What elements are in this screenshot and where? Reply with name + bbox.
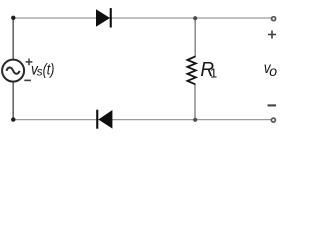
AC voltage source circle [2, 60, 24, 82]
diode D2 triangle [98, 110, 112, 129]
svg-text:o: o [269, 63, 277, 79]
source polarity + [26, 59, 33, 66]
label R1 [200, 59, 217, 82]
node C junction dot (top of resistor branch) [193, 16, 197, 20]
wire: middle vertical lower (resistor to node D) [194, 84, 196, 119]
diode D1 cathode bar [110, 8, 112, 27]
wire: middle vertical upper (node C to resistor) [194, 18, 196, 57]
output terminal circle (bottom right) [271, 118, 275, 122]
wire: top horizontal (node A to output +) [13, 17, 271, 19]
output polarity + [268, 31, 276, 39]
node A junction dot (top-left) [11, 16, 15, 20]
label vo [264, 60, 278, 79]
wire: bottom horizontal (node B to output -) [13, 119, 271, 121]
svg-text:(t): (t) [43, 62, 55, 79]
diode D2 (bottom, anode right) cathode bar [96, 110, 98, 129]
wire: left vertical lower (source - to node B) [12, 81, 14, 120]
wire: left vertical upper (node A to source +) [12, 18, 14, 60]
output polarity - [268, 104, 277, 106]
output terminal circle (top right) [272, 17, 276, 21]
AC source sine wave [7, 67, 20, 73]
node B junction dot (bottom-left) [11, 117, 15, 121]
resistor R1 zigzag [187, 56, 195, 84]
node D junction dot (bottom of resistor branch) [193, 118, 197, 122]
label vs(t) [31, 62, 54, 79]
svg-text:1: 1 [210, 66, 217, 81]
diode D1 (top, anode left) triangle [96, 9, 110, 27]
source polarity - [24, 79, 31, 81]
